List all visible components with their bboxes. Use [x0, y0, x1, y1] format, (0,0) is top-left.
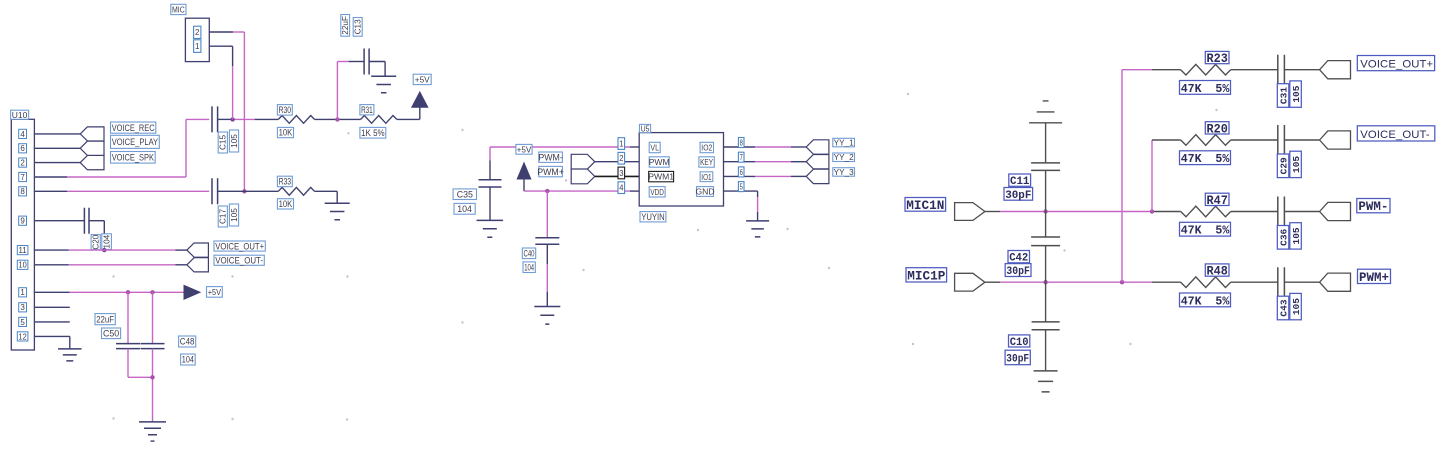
- svg-text:105: 105: [1291, 227, 1302, 244]
- label 105 of C15: [229, 130, 239, 152]
- svg-text:7: 7: [20, 173, 25, 182]
- port PWM- middle: [571, 154, 595, 169]
- pin name PWM1 selected: [648, 171, 674, 181]
- svg-text:VOICE_OUT+: VOICE_OUT+: [1360, 59, 1433, 71]
- wire MIC1N to C42: [1045, 212, 1047, 238]
- capacitor C10: [1032, 322, 1060, 330]
- wire C35 to ground: [489, 187, 491, 220]
- svg-text:C20: C20: [92, 234, 101, 249]
- wire caps to ground: [128, 349, 153, 422]
- pin 12 of U10: [17, 332, 28, 341]
- pin 6 of U5: [738, 167, 744, 177]
- port VOICE_REC: [80, 127, 104, 141]
- label MIC: [171, 4, 186, 14]
- pin 8 of U5: [738, 138, 744, 148]
- svg-text:6: 6: [740, 168, 744, 177]
- connector U10: [11, 119, 34, 350]
- label VOICE_OUT+ left: [214, 241, 265, 251]
- connector MIC: [185, 18, 209, 61]
- wire U5 pin 8 net YY_1: [724, 146, 807, 148]
- pin 4 of U5: [618, 182, 625, 194]
- pin 1 of MIC: [194, 40, 201, 53]
- svg-text:30pF: 30pF: [1006, 266, 1029, 278]
- svg-text:VOICE_OUT-: VOICE_OUT-: [1360, 129, 1430, 141]
- svg-text:5: 5: [20, 318, 25, 327]
- svg-text:1: 1: [619, 139, 624, 148]
- junction MIC1P R23: [1120, 280, 1124, 284]
- label PWM-: [1357, 199, 1390, 215]
- label C11: [1009, 174, 1031, 188]
- label R20: [1205, 122, 1229, 137]
- wire C13 branch: [337, 62, 364, 120]
- capacitor C15: [212, 106, 218, 132]
- label C15: [218, 132, 228, 153]
- svg-text:104: 104: [103, 234, 112, 248]
- svg-text:PWM+: PWM+: [537, 167, 564, 177]
- label C42: [1008, 251, 1030, 265]
- resistor R47: [1181, 206, 1231, 217]
- svg-text:PWM-: PWM-: [1358, 200, 1388, 214]
- junction MIC pin1 node: [230, 117, 234, 121]
- label C35: [453, 189, 476, 200]
- svg-text:R48: R48: [1207, 265, 1228, 279]
- junction MIC1N chain: [1043, 209, 1047, 213]
- pin name IO1: [700, 172, 713, 182]
- svg-text:PWM-: PWM-: [538, 152, 562, 162]
- wire R47 to C36: [1231, 211, 1278, 213]
- wire MIC1P row: [985, 281, 1181, 283]
- svg-text:104: 104: [524, 262, 534, 272]
- svg-text:VDD: VDD: [650, 187, 664, 197]
- capacitor C42: [1031, 237, 1060, 246]
- label C48: [179, 336, 196, 347]
- wire PWM1 to U5 pin 3 selected: [595, 175, 639, 177]
- svg-text:C10: C10: [1010, 337, 1029, 349]
- resistor R23: [1181, 64, 1231, 75]
- label PWM+: [1358, 269, 1391, 285]
- svg-text:C31: C31: [1278, 87, 1289, 104]
- svg-text:C48: C48: [180, 337, 195, 347]
- resistor R30: [278, 116, 314, 124]
- wire U5 pin 7 net YY_2: [724, 161, 807, 163]
- ground of C13: [371, 76, 396, 93]
- port YY_2: [806, 155, 829, 169]
- wire U10 pin 12: [34, 336, 69, 349]
- label 30pF of C10: [1005, 350, 1030, 365]
- wire U10 pin 7 net MIC: [34, 119, 209, 177]
- svg-text:8: 8: [20, 187, 25, 196]
- resistor R48: [1181, 277, 1231, 288]
- label VOICE_REC: [111, 122, 156, 133]
- capacitor C40: [535, 238, 559, 244]
- pin 1 of U10: [19, 288, 27, 297]
- pin name GND: [695, 187, 714, 197]
- svg-text:8: 8: [740, 138, 744, 147]
- svg-text:GND: GND: [695, 187, 714, 197]
- wire R48 to C43: [1231, 281, 1278, 283]
- label +5V top: [413, 74, 431, 84]
- wire net R23 vertical: [1122, 70, 1181, 283]
- svg-text:47K 5%: 47K 5%: [1181, 82, 1230, 96]
- IC U5 body: [639, 133, 723, 206]
- wire U10 pin 5 stub: [34, 321, 69, 323]
- wire U10 pin 4: [34, 133, 80, 135]
- junction below C48: [150, 375, 154, 379]
- ground of U10 pin 12: [58, 349, 82, 361]
- port PWM+: [1320, 273, 1351, 291]
- label +5V right: [207, 287, 223, 298]
- svg-text:47K 5%: 47K 5%: [1181, 294, 1230, 308]
- ground of C40: [534, 307, 560, 325]
- wire U10 pin 6: [34, 147, 80, 149]
- label 10K of R33: [277, 199, 293, 209]
- label 47K 5% of R20: [1180, 151, 1231, 166]
- pin 9 of U10: [19, 216, 27, 225]
- svg-text:R47: R47: [1207, 194, 1228, 208]
- svg-text:VOICE_REC: VOICE_REC: [112, 123, 155, 133]
- port YY_1: [806, 140, 829, 154]
- label 30pF of C42: [1005, 264, 1031, 278]
- pin 5 of U10: [19, 317, 27, 326]
- wire R23 to C31: [1231, 69, 1278, 71]
- label VOICE_OUT-: [1357, 126, 1435, 141]
- junction MIC1N R20: [1150, 209, 1154, 213]
- pin 6 of U10: [19, 144, 27, 153]
- label 22uF of C50: [95, 314, 115, 325]
- svg-text:105: 105: [230, 134, 239, 148]
- junction C40 node: [545, 189, 549, 193]
- label MIC1N: [905, 198, 946, 214]
- wire R33 to ground: [315, 191, 338, 203]
- label 105 of C36: [1290, 223, 1302, 249]
- label C31: [1277, 84, 1289, 108]
- label PWM+ middle: [537, 166, 564, 176]
- resistor R31: [361, 116, 397, 124]
- svg-text:U10: U10: [12, 110, 28, 120]
- svg-text:C50: C50: [103, 328, 119, 338]
- capacitor C36: [1278, 197, 1285, 227]
- svg-text:U5: U5: [641, 124, 650, 133]
- svg-text:3: 3: [619, 169, 624, 178]
- label 47K 5% of R47: [1180, 222, 1231, 237]
- wire C10 to ground: [1045, 330, 1047, 371]
- wire net R20 vertical: [1152, 140, 1181, 212]
- svg-text:MIC1P: MIC1P: [907, 269, 945, 284]
- port VOICE_OUT- left: [187, 258, 209, 272]
- svg-text:+5V: +5V: [517, 145, 532, 154]
- pin name VL: [649, 142, 660, 152]
- wire +5V to U5 pin 4: [524, 190, 639, 192]
- svg-text:47K 5%: 47K 5%: [1181, 224, 1230, 238]
- svg-text:10K: 10K: [279, 199, 293, 209]
- port YY_3: [806, 169, 829, 183]
- svg-text:3: 3: [20, 303, 25, 312]
- svg-text:2: 2: [619, 154, 624, 163]
- svg-text:MIC1N: MIC1N: [906, 198, 944, 213]
- junction MIC pin2 to C17 net: [242, 189, 246, 193]
- wire +5V to U5 pin 1: [490, 147, 639, 180]
- svg-text:5: 5: [740, 182, 744, 191]
- svg-text:C35: C35: [457, 189, 473, 199]
- wire C31 to port VOICE_OUT+: [1284, 69, 1319, 71]
- wire U10 pin 11 net VOICE_OUT+: [34, 249, 187, 251]
- label PWM- middle: [538, 152, 562, 162]
- label 104 of C20: [102, 234, 112, 250]
- svg-text:VOICE_SPK: VOICE_SPK: [112, 153, 155, 163]
- svg-text:9: 9: [20, 217, 25, 226]
- svg-text:R23: R23: [1207, 52, 1228, 66]
- label C29: [1277, 154, 1289, 178]
- pin name KEY: [699, 157, 714, 167]
- wire C13 to ground: [369, 62, 385, 77]
- label VOICE_PLAY: [111, 135, 160, 148]
- svg-text:1: 1: [20, 288, 25, 297]
- ground below C48: [139, 422, 166, 441]
- svg-text:YY_1: YY_1: [834, 139, 854, 148]
- label 1K 5% of R31: [360, 127, 386, 138]
- pin 2 of MIC: [194, 26, 201, 38]
- svg-text:YY_2: YY_2: [834, 153, 854, 162]
- junction C13 node: [335, 117, 339, 121]
- label C50: [102, 328, 121, 339]
- wire PWM- to U5 pin 2: [595, 161, 639, 163]
- wire R20 to C29: [1231, 139, 1278, 141]
- wire C42 to MIC1P: [1045, 246, 1047, 283]
- pin name PWM: [649, 157, 670, 167]
- label YUYIN: [640, 212, 666, 222]
- label 105 of C43: [1290, 293, 1302, 319]
- grid dots: [112, 93, 1217, 421]
- resistor R33: [278, 187, 314, 195]
- wire R30 to R31: [315, 118, 361, 120]
- capacitor C17: [212, 178, 218, 204]
- capacitor C20: [84, 208, 89, 234]
- label R48: [1205, 264, 1229, 279]
- svg-text:VOICE_OUT+: VOICE_OUT+: [215, 241, 264, 251]
- label C13: [353, 18, 362, 37]
- pin 1 of U5: [618, 138, 625, 150]
- label 47K 5% of R48: [1180, 293, 1231, 308]
- wire C29 to port VOICE_OUT-: [1284, 139, 1319, 141]
- label R47: [1205, 193, 1229, 208]
- svg-text:1: 1: [195, 42, 200, 51]
- pin 8 of U10: [19, 187, 27, 196]
- svg-text:C15: C15: [219, 135, 228, 150]
- junction C20 node: [102, 248, 106, 252]
- wire MIC pin 2: [209, 32, 244, 191]
- wire U10 pin 8 net: [34, 190, 209, 192]
- label C43: [1277, 296, 1289, 320]
- label C40: [522, 248, 535, 259]
- wire U10 pin 1 net +5V: [34, 291, 184, 293]
- pin name VDD: [649, 187, 665, 197]
- power +5V arrow middle: [517, 163, 531, 191]
- port VOICE_OUT+: [1320, 61, 1351, 79]
- label YY_2: [833, 153, 855, 162]
- ground of R33: [325, 203, 350, 220]
- svg-text:R31: R31: [361, 105, 373, 115]
- label R23: [1205, 51, 1229, 66]
- ground of C35: [477, 220, 504, 237]
- svg-text:4: 4: [20, 130, 25, 139]
- wire MIC1N row: [985, 211, 1181, 213]
- label U10: [11, 110, 29, 120]
- svg-text:KEY: KEY: [700, 157, 713, 167]
- ground top of chain inverted: [1029, 101, 1062, 163]
- capacitor C43: [1278, 267, 1285, 297]
- wire C15 to R30: [218, 118, 279, 120]
- label C17: [218, 206, 228, 227]
- label 105 of C31: [1290, 81, 1302, 107]
- label 10K of R30: [277, 127, 293, 137]
- port PWM+ middle: [571, 169, 595, 184]
- svg-text:10K: 10K: [279, 128, 293, 138]
- label 104 of C40: [523, 262, 535, 273]
- svg-text:105: 105: [1291, 156, 1302, 173]
- wire U10 pin 10 net VOICE_OUT-: [34, 264, 187, 266]
- svg-text:VL: VL: [650, 143, 659, 153]
- svg-text:2: 2: [20, 158, 25, 167]
- svg-text:30pF: 30pF: [1005, 190, 1031, 202]
- svg-text:104: 104: [457, 204, 472, 214]
- svg-text:+5V: +5V: [415, 75, 430, 84]
- label VOICE_SPK: [111, 152, 156, 164]
- wire MIC1P to C10: [1045, 282, 1047, 322]
- svg-text:YUYIN: YUYIN: [641, 212, 665, 222]
- wire C17 to R33: [218, 190, 279, 192]
- port VOICE_PLAY: [80, 141, 104, 155]
- pin 4 of U10: [19, 129, 27, 138]
- wire MIC pin 1: [209, 46, 232, 119]
- pin 7 of U10: [19, 172, 27, 181]
- ground of U5 pin 5: [746, 221, 769, 237]
- wire C11 to MIC1N: [1045, 170, 1047, 211]
- power +5V arrow top: [412, 92, 428, 107]
- pin 7 of U5: [738, 152, 744, 162]
- wire C40 branch: [546, 191, 548, 238]
- svg-text:C29: C29: [1278, 157, 1289, 174]
- svg-text:MIC: MIC: [172, 5, 185, 15]
- capacitor C13: [364, 49, 369, 75]
- wire U5 pin 6 net YY_3: [724, 175, 807, 177]
- label C10: [1009, 335, 1030, 349]
- wire U10 pin 9: [34, 220, 84, 222]
- svg-text:104: 104: [182, 355, 194, 365]
- svg-text:10: 10: [19, 261, 28, 270]
- svg-text:VOICE_PLAY: VOICE_PLAY: [112, 137, 158, 147]
- svg-text:IO1: IO1: [701, 172, 711, 182]
- label 22uF of C13: [341, 15, 350, 37]
- svg-text:22uF: 22uF: [96, 314, 114, 324]
- wire U10 pin 2: [34, 162, 80, 164]
- label C36: [1277, 226, 1289, 250]
- wire R31 to +5V: [397, 107, 420, 119]
- wire U5 pin 5 to ground: [724, 191, 758, 221]
- label U5: [640, 124, 651, 133]
- port VOICE_SPK: [80, 155, 104, 169]
- svg-text:R33: R33: [279, 177, 292, 187]
- capacitor C35: [479, 180, 502, 187]
- junction C48 node: [150, 290, 154, 294]
- svg-text:47K 5%: 47K 5%: [1181, 152, 1230, 166]
- wire C40 to ground: [546, 244, 548, 306]
- pin name IO2: [700, 142, 713, 152]
- label +5V middle: [516, 144, 532, 154]
- capacitor C50: [116, 344, 140, 349]
- svg-text:22uF: 22uF: [341, 16, 350, 35]
- svg-text:1K 5%: 1K 5%: [361, 128, 385, 138]
- label 105 of C17: [229, 204, 239, 226]
- pin 2 of U5: [618, 152, 625, 164]
- ground bottom of chain: [1034, 371, 1058, 392]
- svg-text:R30: R30: [279, 105, 292, 115]
- wire C48 branch: [152, 292, 154, 343]
- resistor R20: [1181, 135, 1231, 146]
- junction C50 node: [126, 290, 130, 294]
- wire C50 branch: [127, 292, 129, 343]
- label YY_3: [833, 168, 855, 177]
- svg-text:12: 12: [19, 332, 28, 341]
- svg-text:C11: C11: [1010, 176, 1030, 188]
- label VOICE_OUT- left: [214, 255, 264, 265]
- label 105 of C29: [1290, 151, 1302, 177]
- junction MIC1P chain: [1043, 280, 1047, 284]
- port VOICE_OUT+ left: [187, 243, 209, 257]
- label YY_1: [833, 138, 855, 147]
- label R30: [277, 105, 292, 116]
- svg-text:R20: R20: [1207, 122, 1228, 136]
- port PWM-: [1320, 202, 1351, 220]
- label C20: [91, 234, 101, 250]
- wire U10 pin 3 stub: [34, 306, 69, 308]
- svg-text:YY_3: YY_3: [834, 168, 854, 177]
- label 30pF of C11: [1004, 188, 1033, 202]
- label R31: [360, 105, 374, 115]
- pin 5 of U5: [738, 182, 744, 192]
- wire C36 to port PWM-: [1284, 211, 1319, 213]
- pin 3 of U5 selected: [618, 167, 625, 179]
- svg-text:PWM1: PWM1: [648, 172, 674, 182]
- port MIC1P: [955, 273, 985, 291]
- svg-text:VOICE_OUT-: VOICE_OUT-: [215, 256, 263, 266]
- svg-text:C17: C17: [219, 209, 228, 224]
- svg-text:4: 4: [619, 184, 624, 193]
- wire C20 to pin11 net: [89, 221, 104, 250]
- port VOICE_OUT-: [1320, 131, 1351, 149]
- capacitor C48: [141, 344, 165, 349]
- label 104 of C35: [454, 203, 475, 214]
- label R33: [277, 176, 292, 187]
- svg-text:105: 105: [1291, 298, 1302, 315]
- svg-text:105: 105: [230, 208, 239, 222]
- pin 2 of U10: [19, 158, 27, 167]
- svg-text:C43: C43: [1278, 299, 1289, 316]
- pin 11 of U10: [17, 246, 28, 255]
- label 47K 5% of R23: [1180, 81, 1231, 96]
- svg-text:C40: C40: [524, 248, 535, 258]
- svg-text:2: 2: [195, 28, 200, 37]
- pin 3 of U10: [19, 303, 27, 312]
- svg-text:30pF: 30pF: [1006, 353, 1029, 365]
- svg-text:6: 6: [20, 144, 25, 153]
- svg-text:7: 7: [740, 153, 744, 162]
- svg-text:PWM+: PWM+: [1359, 271, 1389, 285]
- svg-text:C42: C42: [1009, 253, 1028, 265]
- label VOICE_OUT+: [1357, 56, 1434, 71]
- label 104 of C48: [181, 354, 196, 365]
- port MIC1N: [955, 203, 985, 221]
- svg-text:+5V: +5V: [208, 288, 222, 297]
